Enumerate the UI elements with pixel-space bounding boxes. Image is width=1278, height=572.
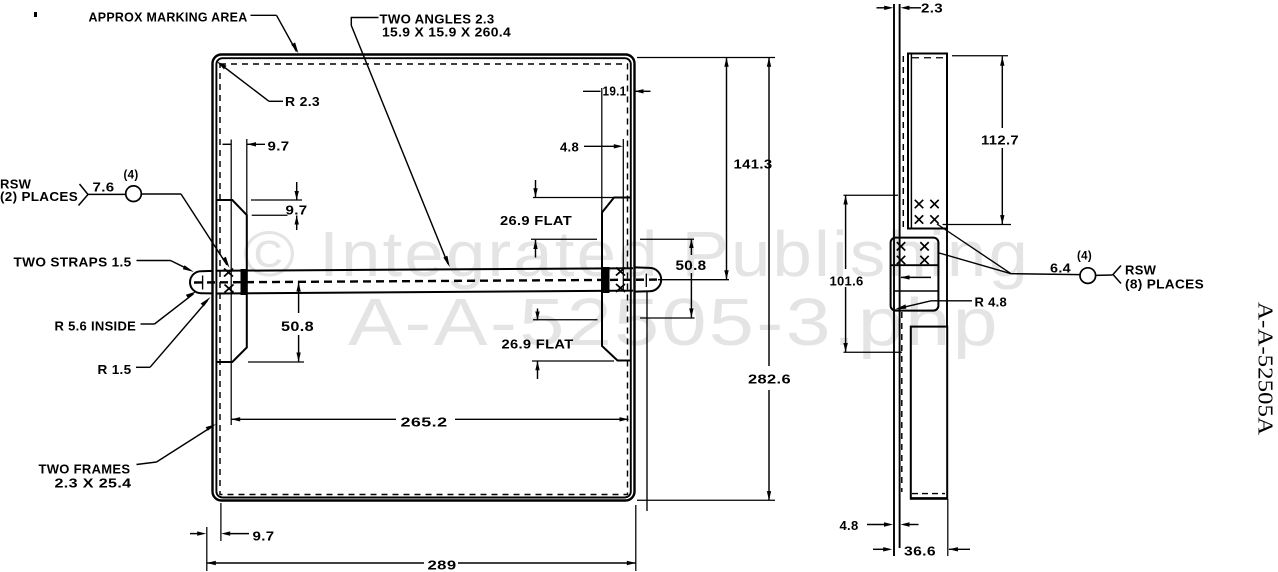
- side view right edge continuation: [946, 229, 948, 327]
- middle block internal arrow line: [901, 275, 932, 279]
- side view middle strap block: [891, 238, 939, 311]
- dimension 289: [207, 505, 636, 572]
- strap dashed center line: [194, 280, 658, 283]
- lower rectangle bottom dashes: [912, 493, 945, 495]
- dimension 4.8 side: [840, 518, 919, 533]
- svg-text:112.7: 112.7: [981, 133, 1019, 148]
- side view plate right line: [899, 4, 901, 548]
- note R 1.5: [98, 297, 211, 377]
- side view hidden dashed line upper: [902, 56, 904, 232]
- dimension 2.3 side: [877, 1, 944, 16]
- dimension 9.7 second (chamfer drop): [251, 182, 308, 230]
- svg-text:9.7: 9.7: [286, 203, 308, 218]
- dimension 50.8 left: [248, 282, 314, 363]
- svg-text:36.6: 36.6: [904, 544, 936, 559]
- dimension 26.9 FLAT upper: [500, 180, 614, 258]
- dimension 282.6: [748, 58, 791, 501]
- weld marks upper angle: [915, 200, 939, 224]
- right tab: [634, 267, 661, 291]
- svg-text:4.8: 4.8: [840, 518, 859, 533]
- weld marks left pair: [224, 269, 234, 293]
- weld marks right pair: [616, 268, 625, 293]
- svg-text:50.8: 50.8: [676, 258, 707, 273]
- side view lower angle rectangle: [911, 327, 947, 499]
- note RSW (2) PLACES with weld circle: [0, 170, 230, 268]
- svg-text:141.3: 141.3: [734, 157, 773, 172]
- marking area hidden dashed rectangle: [220, 64, 628, 495]
- strap top edge: [217, 268, 634, 271]
- note R 5.6 INSIDE: [55, 291, 197, 333]
- dimension 141.3: [724, 58, 772, 280]
- extension line x=601 for 19.1: [601, 88, 603, 213]
- dimension 112.7: [943, 56, 1020, 225]
- svg-text:R 2.3: R 2.3: [285, 94, 320, 109]
- svg-text:26.9 FLAT: 26.9 FLAT: [502, 337, 574, 352]
- svg-text:(4): (4): [1077, 251, 1092, 263]
- note APPROX MARKING AREA: [89, 10, 299, 54]
- dimension 4.8 front: [560, 140, 623, 155]
- left tab: [190, 271, 213, 294]
- dimension 50.8 right: [640, 239, 707, 318]
- extension line x=231 (9.7 top / 265.2 left): [230, 140, 232, 426]
- strap bottom edge: [217, 291, 634, 294]
- svg-text:(2) PLACES: (2) PLACES: [0, 189, 78, 204]
- svg-text:282.6: 282.6: [748, 372, 791, 387]
- svg-text:2.3 X 25.4: 2.3 X 25.4: [55, 476, 133, 491]
- extension line x=623.3 for 4.8: [622, 139, 624, 291]
- svg-text:APPROX MARKING AREA: APPROX MARKING AREA: [89, 10, 248, 25]
- svg-text:RSW: RSW: [1125, 263, 1157, 278]
- left angle bracket: [216, 200, 246, 362]
- bottom extension line to right dims: [637, 499, 775, 501]
- svg-text:R 5.6 INSIDE: R 5.6 INSIDE: [55, 319, 137, 334]
- stray dot top left: [34, 12, 37, 17]
- extension line x=246.8 above bracket: [246, 139, 248, 215]
- side view upper angle top inner dashes: [912, 57, 944, 59]
- middle block divider lower: [894, 290, 939, 292]
- note TWO STRAPS 1.5: [14, 255, 194, 272]
- svg-text:26.9 FLAT: 26.9 FLAT: [500, 213, 572, 228]
- dimension 9.7 top: [223, 139, 290, 154]
- svg-text:TWO STRAPS 1.5: TWO STRAPS 1.5: [14, 255, 132, 270]
- note R 4.8: [895, 295, 1007, 310]
- svg-text:R 4.8: R 4.8: [975, 295, 1008, 310]
- svg-text:TWO FRAMES: TWO FRAMES: [39, 462, 131, 477]
- svg-text:19.1: 19.1: [603, 84, 627, 99]
- dimension 101.6: [830, 195, 903, 352]
- dimension 36.6: [873, 544, 970, 559]
- svg-text:(8) PLACES: (8) PLACES: [1125, 277, 1204, 292]
- right tab center tick: [645, 274, 647, 288]
- side view plate left line: [893, 4, 895, 556]
- extension below right edge: [947, 499, 949, 556]
- svg-text:R 1.5: R 1.5: [98, 362, 132, 377]
- note TWO ANGLES 2.3 / 15.9 X 15.9 X 260.4: [351, 12, 511, 268]
- svg-text:50.8: 50.8: [281, 319, 314, 334]
- svg-text:289: 289: [428, 558, 457, 572]
- dimension 19.1: [583, 84, 651, 99]
- right angle bracket: [602, 198, 631, 361]
- svg-text:6.4: 6.4: [1050, 261, 1072, 276]
- right tab center line extension: [658, 279, 729, 281]
- note TWO FRAMES 2.3 X 25.4: [39, 424, 217, 490]
- middle block divider upper: [891, 264, 939, 266]
- weld patch right at bracket: [603, 267, 610, 293]
- weld patch left at bracket: [241, 269, 248, 295]
- lower rectangle bottom thick edge: [911, 497, 947, 499]
- dimension 265.2: [231, 415, 628, 430]
- side view hidden dashed line lower: [901, 312, 903, 492]
- panel outer outline: [213, 55, 635, 501]
- top extension line to right dims: [637, 57, 775, 59]
- svg-text:7.6: 7.6: [93, 180, 115, 195]
- weld marks middle block: [897, 242, 929, 264]
- svg-text:265.2: 265.2: [401, 415, 448, 430]
- svg-text:101.6: 101.6: [830, 274, 864, 289]
- svg-text:15.9 X 15.9 X 260.4: 15.9 X 15.9 X 260.4: [382, 25, 512, 40]
- line below right tab: [646, 292, 648, 511]
- dimension 9.7 bottom: [190, 503, 275, 544]
- svg-text:9.7: 9.7: [253, 529, 275, 544]
- side view upper angle rectangle: [908, 54, 947, 229]
- panel inner outline: [216, 58, 630, 497]
- left tab center tick: [202, 276, 204, 290]
- svg-text:4.8: 4.8: [560, 140, 579, 155]
- svg-text:9.7: 9.7: [268, 139, 290, 154]
- note R 2.3: [217, 61, 321, 109]
- svg-text:2.3: 2.3: [921, 1, 943, 16]
- dimension 26.9 FLAT lower: [502, 309, 615, 380]
- side view upper angle inner leg line: [910, 54, 912, 229]
- svg-text:(4): (4): [124, 170, 139, 182]
- note RSW (8) PLACES with weld circle: [937, 224, 1204, 292]
- svg-text:A-A-52505A: A-A-52505A: [1254, 302, 1278, 436]
